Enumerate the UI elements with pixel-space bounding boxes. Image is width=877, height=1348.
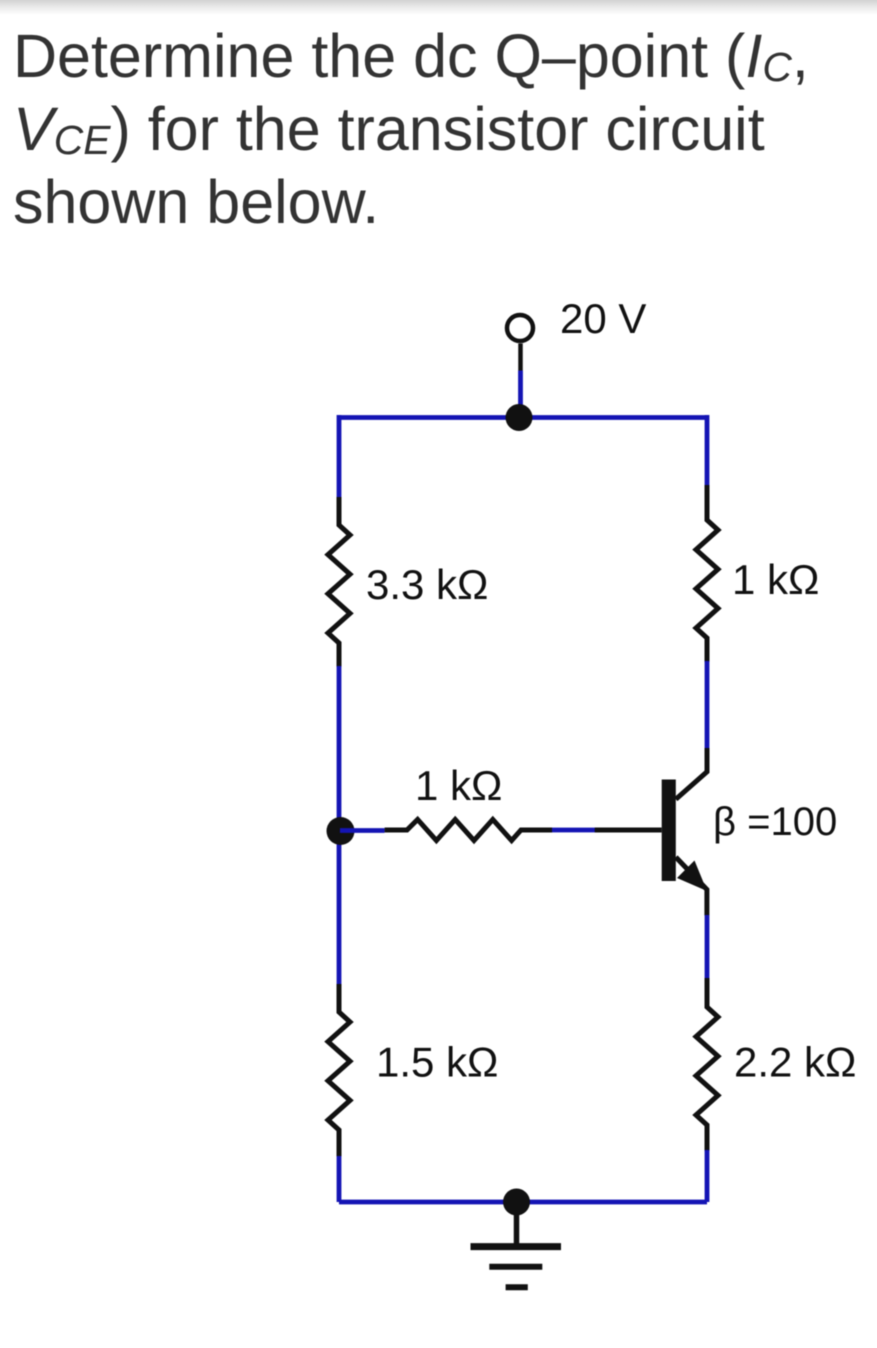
node ground junction dot — [503, 1189, 530, 1216]
terminal stem black — [518, 344, 523, 371]
svg-text:2.2 kΩ: 2.2 kΩ — [734, 1039, 856, 1086]
transistor Q1 emitter lead — [676, 857, 707, 915]
wire left rail lower — [337, 1156, 342, 1202]
wire bottom rail — [339, 1200, 707, 1205]
svg-text:1 kΩ: 1 kΩ — [732, 556, 819, 603]
wire right rail collector — [705, 661, 710, 749]
svg-text:β =100: β =100 — [713, 800, 837, 844]
resistor R3 1 kOhm — [696, 485, 718, 662]
resistor R5 1 kOhm base — [385, 820, 553, 841]
node Vcc junction dot — [506, 404, 533, 431]
transistor Q1 emitter arrowhead — [677, 861, 707, 892]
wire left rail middle — [337, 666, 342, 984]
ground bar 3 — [506, 1284, 528, 1290]
wire top rail — [339, 415, 707, 420]
resistor R2 1.5 kOhm — [328, 984, 350, 1157]
svg-text:1.5 kΩ: 1.5 kΩ — [376, 1039, 498, 1086]
ground bar 2 — [489, 1264, 542, 1270]
wire left rail upper — [337, 415, 342, 498]
svg-text:1 kΩ: 1 kΩ — [415, 762, 502, 809]
ground stem — [514, 1202, 520, 1246]
svg-text:20 V: 20 V — [560, 295, 646, 342]
terminal stem wire blue — [518, 371, 523, 413]
terminal 20 V circle — [507, 315, 533, 341]
wire right rail lower — [705, 1150, 710, 1202]
node base-divider junction dot — [327, 817, 355, 845]
wire base blue from junction — [340, 828, 385, 833]
wire base black to bar — [595, 828, 662, 833]
wire right rail upper — [705, 415, 710, 486]
resistor R4 2.2 kOhm — [696, 978, 718, 1151]
svg-text:3.3 kΩ: 3.3 kΩ — [366, 561, 488, 608]
ground bar 1 — [471, 1243, 562, 1250]
wire right rail emitter — [705, 915, 710, 979]
wire base blue middle — [552, 828, 595, 833]
transistor Q1 collector lead — [676, 748, 707, 799]
transistor Q1 base bar — [662, 780, 676, 882]
resistor R1 3.3 kOhm — [328, 497, 350, 667]
